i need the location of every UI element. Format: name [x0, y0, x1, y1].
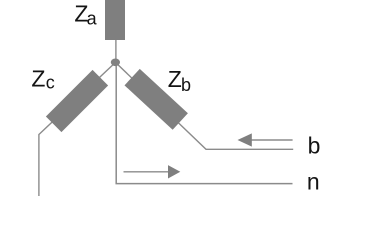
node: star point — [111, 59, 120, 67]
wire: node to phase-c bend then vertical drop — [39, 62, 116, 197]
label Zb — [168, 66, 191, 95]
svg-text:n: n — [307, 168, 320, 194]
current arrow into terminal b (pointing left) — [238, 133, 293, 146]
label Zc — [31, 66, 54, 93]
svg-text:b: b — [181, 75, 191, 95]
impedance Zc (rotated rect) — [46, 70, 108, 132]
svg-text:Z: Z — [168, 66, 182, 92]
svg-text:b: b — [308, 132, 321, 158]
wire: node to phase-b bend then horizontal to terminal b — [116, 62, 294, 149]
wire: Za lead to star node — [115, 38, 117, 62]
label Za — [74, 1, 97, 29]
svg-text:Z: Z — [31, 66, 45, 92]
svg-text:c: c — [46, 73, 55, 93]
svg-text:a: a — [87, 9, 98, 29]
impedance Za (rect, top cropped) — [105, 0, 125, 40]
impedance Zb (rotated rect) — [125, 69, 188, 130]
current arrow on neutral (pointing right) — [124, 165, 181, 178]
wire: neutral from node down then horizontal to terminal n — [116, 62, 292, 184]
